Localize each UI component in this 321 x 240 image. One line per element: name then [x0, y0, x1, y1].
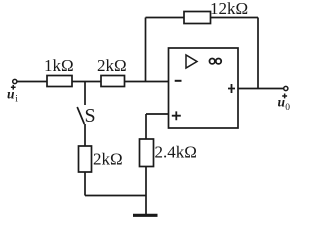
- resistor R2 2k: [101, 76, 125, 87]
- op-amp plus sign (output): [228, 84, 235, 93]
- svg-text:1kΩ: 1kΩ: [44, 56, 74, 75]
- op-amp minus sign: [175, 80, 182, 82]
- switch S blade: [77, 107, 84, 124]
- svg-text:u: u: [7, 87, 15, 102]
- wire R1 to R2: [72, 81, 101, 83]
- label uo plus: [282, 94, 287, 99]
- svg-text:12kΩ: 12kΩ: [210, 0, 248, 18]
- wire feedback top left: [146, 17, 185, 19]
- svg-text:u: u: [278, 95, 286, 110]
- wire input to R1: [17, 81, 47, 83]
- output terminal uo: [284, 86, 288, 90]
- svg-text:2kΩ: 2kΩ: [97, 56, 127, 75]
- wire R3 to bottom: [84, 172, 86, 196]
- wire feedback left vertical: [145, 18, 147, 82]
- svg-text:S: S: [85, 105, 96, 127]
- wire feedback top right: [211, 17, 259, 19]
- wire output: [238, 88, 284, 90]
- svg-text:2kΩ: 2kΩ: [93, 150, 123, 169]
- svg-text:2.4kΩ: 2.4kΩ: [155, 142, 197, 161]
- wire switch branch down: [84, 82, 86, 106]
- op-amp U1 box: [169, 48, 239, 128]
- resistor R3 2k vertical: [79, 146, 92, 172]
- wire bottom horizontal: [85, 195, 146, 197]
- resistor Rf 12k: [184, 12, 211, 24]
- wire feedback right vertical: [257, 18, 259, 89]
- op-amp triangle symbol: [186, 55, 197, 68]
- op-amp plus sign (noninverting): [172, 111, 181, 120]
- svg-text:0: 0: [285, 103, 290, 113]
- wire noninverting branch down: [145, 114, 147, 139]
- ground: [133, 214, 158, 217]
- wire switch to R3: [84, 124, 86, 146]
- wire R2 to opamp inverting input: [125, 81, 169, 83]
- resistor R1 1k: [47, 76, 72, 87]
- input terminal ui: [13, 79, 17, 83]
- resistor R4 2.4k vertical: [140, 139, 154, 167]
- wire noninverting input: [146, 113, 169, 115]
- wire R4 to ground: [145, 167, 147, 215]
- label ui plus: [11, 85, 16, 90]
- op-amp infinity symbol: [210, 59, 222, 64]
- svg-text:i: i: [15, 95, 18, 105]
